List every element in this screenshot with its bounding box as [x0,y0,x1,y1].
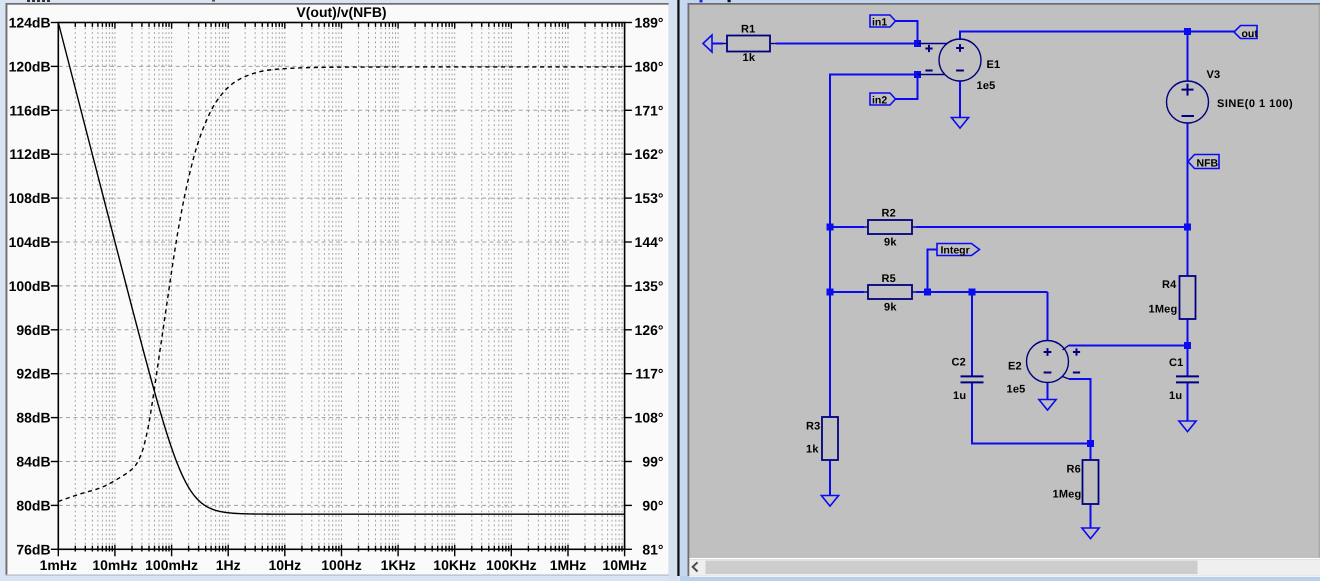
svg-text:1u: 1u [1169,390,1182,402]
svg-text:NFB: NFB [1197,157,1219,169]
svg-text:100mHz: 100mHz [145,557,198,573]
svg-text:1KHz: 1KHz [381,557,416,573]
svg-text:1Meg: 1Meg [1149,304,1178,316]
svg-text:99°: 99° [642,454,663,470]
svg-text:189°: 189° [635,15,664,31]
svg-text:117°: 117° [635,366,663,382]
svg-text:116dB: 116dB [9,102,50,118]
svg-text:135°: 135° [635,278,664,294]
svg-text:Integr: Integr [941,245,970,257]
svg-text:180°: 180° [635,58,664,74]
svg-text:R2: R2 [882,208,896,220]
svg-text:100dB: 100dB [9,278,51,294]
svg-text:1mHz: 1mHz [40,557,77,573]
svg-text:9k: 9k [884,237,897,249]
svg-text:88dB: 88dB [16,410,50,426]
svg-text:C1: C1 [1169,357,1183,369]
svg-text:in2: in2 [872,95,887,107]
svg-text:153°: 153° [635,190,664,206]
svg-text:92dB: 92dB [16,366,50,382]
svg-text:108dB: 108dB [9,190,51,206]
svg-text:V3: V3 [1207,69,1221,81]
svg-text:R3: R3 [806,421,820,433]
svg-text:1Meg: 1Meg [1053,489,1082,501]
svg-text:10KHz: 10KHz [433,557,476,573]
svg-text:in1: in1 [872,17,887,29]
svg-text:1e5: 1e5 [977,80,996,92]
svg-text:10MHz: 10MHz [602,557,646,573]
svg-text:84dB: 84dB [16,454,50,470]
svg-text:124dB: 124dB [9,15,51,31]
svg-text:1Hz: 1Hz [216,557,241,573]
svg-text:104dB: 104dB [9,234,51,250]
svg-text:1k: 1k [743,52,756,64]
svg-text:1MHz: 1MHz [550,557,587,573]
svg-text:9k: 9k [884,302,897,314]
svg-text:E2: E2 [1008,361,1022,373]
svg-text:96dB: 96dB [16,322,50,338]
svg-text:SINE(0 1 100): SINE(0 1 100) [1217,98,1293,110]
svg-text:171°: 171° [635,102,664,118]
svg-text:1u: 1u [953,390,966,402]
svg-text:10mHz: 10mHz [92,557,137,573]
svg-text:126°: 126° [635,322,664,338]
svg-text:R4: R4 [1162,279,1177,291]
svg-text:112dB: 112dB [9,146,50,162]
svg-text:81°: 81° [642,541,663,557]
svg-text:100Hz: 100Hz [321,557,361,573]
svg-text:144°: 144° [635,234,664,250]
svg-text:C2: C2 [952,357,966,369]
svg-text:V(out)/v(NFB): V(out)/v(NFB) [296,4,386,20]
svg-text:R1: R1 [741,24,755,36]
svg-text:10Hz: 10Hz [268,557,301,573]
svg-text:E1: E1 [987,59,1001,71]
svg-text:1e5: 1e5 [1007,384,1026,396]
svg-text:80dB: 80dB [16,497,50,513]
svg-text:162°: 162° [635,146,664,162]
svg-text:76dB: 76dB [16,541,50,557]
svg-text:100KHz: 100KHz [486,557,537,573]
svg-text:108°: 108° [635,410,664,426]
svg-text:R6: R6 [1067,464,1081,476]
svg-text:120dB: 120dB [9,58,51,74]
svg-text:90°: 90° [642,497,663,513]
svg-text:out: out [1242,28,1259,40]
svg-text:R5: R5 [882,273,896,285]
svg-text:1k: 1k [806,444,819,456]
